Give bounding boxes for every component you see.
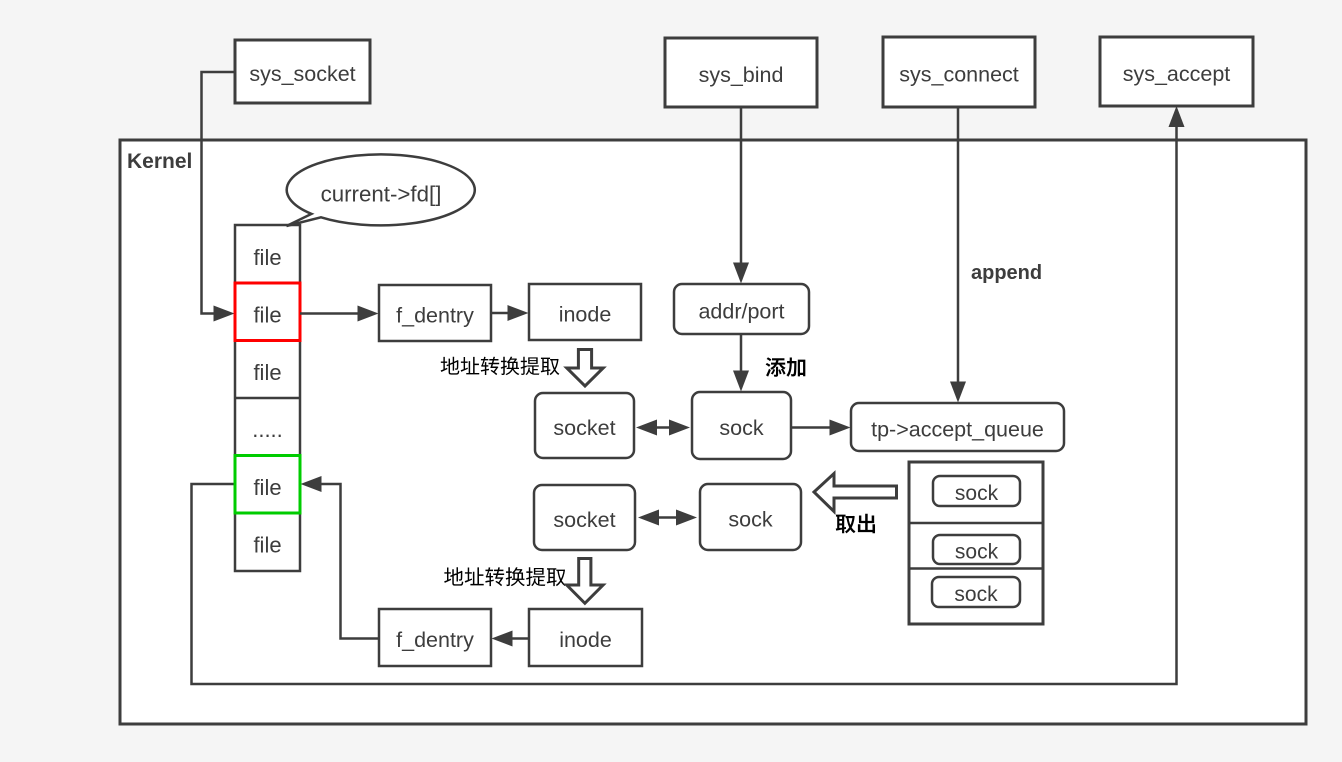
svg-text:sock: sock	[719, 416, 763, 440]
svg-text:file: file	[253, 475, 281, 500]
svg-text:append: append	[971, 262, 1042, 284]
box sock upper	[692, 392, 791, 459]
arrow sys_bind down	[740, 107, 743, 278]
svg-text:sock: sock	[955, 482, 999, 505]
box sys_accept	[1100, 37, 1253, 106]
box f_dentry lower	[379, 609, 491, 666]
wire: sys_socket to red file	[202, 72, 236, 314]
box inode upper	[529, 284, 641, 340]
sock queue container	[909, 462, 1043, 624]
box tp accept_queue	[851, 403, 1064, 451]
svg-text:socket: socket	[553, 416, 615, 440]
box socket upper	[535, 393, 634, 458]
label tianjia	[766, 357, 786, 376]
hollow left arrow	[814, 474, 897, 512]
hollow down arrow lower	[567, 559, 603, 604]
svg-text:file: file	[253, 533, 281, 558]
box f_dentry upper	[379, 285, 491, 341]
double arrow socket-sock upper	[654, 426, 672, 429]
svg-text:file: file	[253, 303, 281, 328]
box addr/port	[674, 284, 809, 334]
label quchu	[836, 515, 856, 534]
svg-text:sys_accept: sys_accept	[1123, 62, 1231, 86]
sock queue item 1	[933, 476, 1020, 506]
svg-text:Kernel: Kernel	[127, 150, 192, 173]
svg-text:sys_socket: sys_socket	[249, 62, 355, 86]
arrow inode to f_dentry lower	[499, 637, 529, 640]
arrow sock to accept_queue	[791, 426, 843, 429]
svg-text:sock: sock	[955, 541, 999, 564]
svg-text:file: file	[253, 360, 281, 385]
svg-text:sys_connect: sys_connect	[899, 63, 1019, 87]
box sys_bind	[665, 38, 817, 107]
kernel box	[120, 140, 1306, 724]
wire: lower f_dentry to green file	[310, 484, 379, 639]
label addr translate lower	[444, 567, 463, 585]
svg-text:sys_bind: sys_bind	[699, 63, 784, 87]
svg-text:sock: sock	[954, 583, 998, 606]
box sock lower	[700, 484, 801, 550]
wire: green file to sys_accept loop	[192, 110, 1177, 684]
svg-text:inode: inode	[559, 628, 612, 652]
sock queue item 3	[932, 577, 1020, 607]
arrow addr/port to sock	[740, 334, 743, 386]
svg-text:socket: socket	[553, 508, 615, 532]
double arrow socket-sock lower	[656, 516, 679, 519]
svg-text:current->fd[]: current->fd[]	[321, 182, 442, 207]
arrow f_dentry to inode	[491, 312, 521, 315]
svg-text:file: file	[253, 245, 281, 270]
arrow sys_connect down	[957, 107, 960, 397]
sock queue item 2	[933, 535, 1020, 564]
balloon current->fd[]	[287, 154, 475, 226]
svg-text:inode: inode	[559, 303, 612, 327]
box sys_connect	[883, 37, 1035, 107]
label addr translate upper	[441, 357, 460, 375]
svg-text:.....: .....	[252, 417, 283, 442]
svg-text:tp->accept_queue: tp->accept_queue	[871, 418, 1044, 442]
box sys_socket	[235, 40, 370, 103]
svg-text:sock: sock	[728, 508, 772, 532]
hollow down arrow upper	[567, 350, 603, 387]
file descriptor table	[235, 225, 300, 571]
box inode lower	[529, 609, 642, 666]
red file cell	[235, 283, 300, 341]
svg-text:f_dentry: f_dentry	[396, 304, 474, 328]
arrow red file to f_dentry	[300, 312, 371, 315]
green file cell	[235, 456, 300, 514]
svg-text:addr/port: addr/port	[698, 300, 784, 324]
svg-text:f_dentry: f_dentry	[396, 628, 474, 652]
box socket lower	[534, 485, 635, 550]
